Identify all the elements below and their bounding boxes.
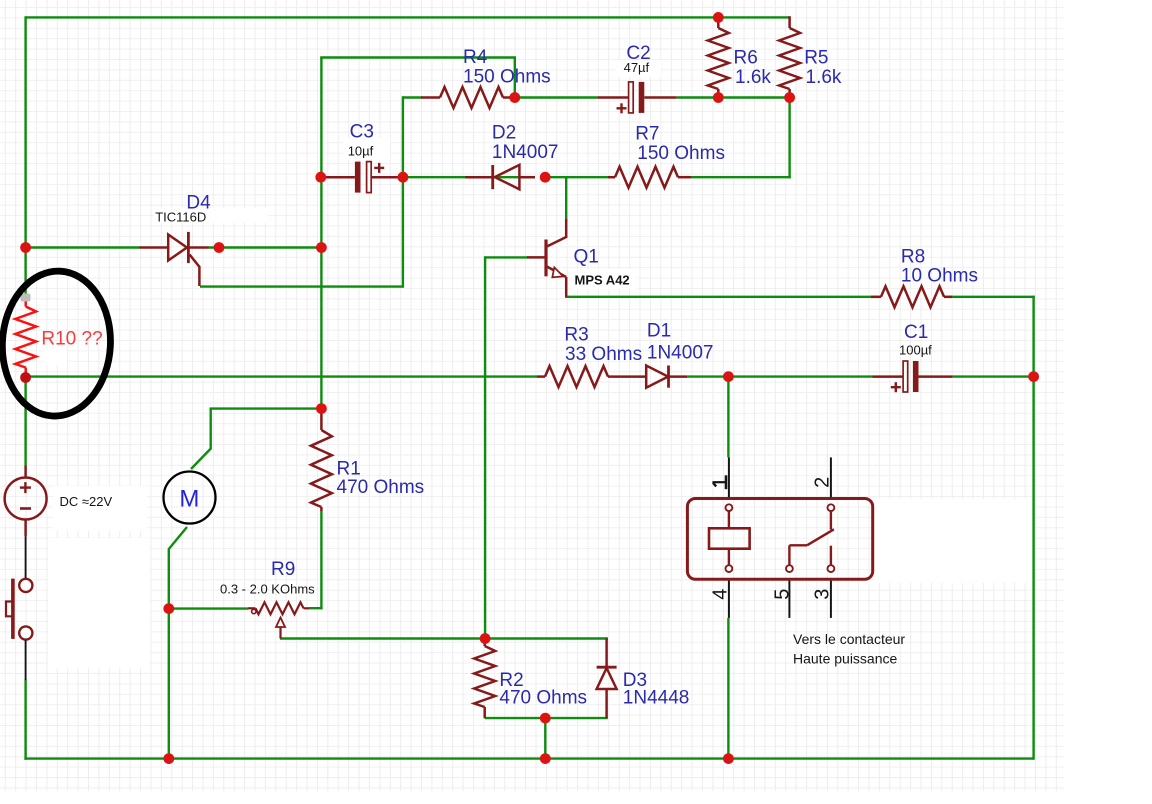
node D4 out bbox=[214, 242, 225, 253]
relay pin 3 lead bbox=[830, 581, 832, 618]
svg-text:2: 2 bbox=[811, 477, 833, 488]
wire R8 to right rail bbox=[952, 296, 1035, 298]
wire R2/D3 bottom bbox=[485, 717, 608, 719]
wire D3 corner bbox=[605, 637, 607, 640]
relay K1 bbox=[687, 457, 872, 618]
resistor R5 bbox=[779, 16, 800, 97]
wire R4 to node bbox=[509, 96, 515, 98]
wire motor bottom bbox=[169, 527, 187, 609]
wire vertical x403 bbox=[402, 96, 404, 287]
wire R10 to R3 bbox=[26, 375, 537, 377]
node R10 bottom bbox=[20, 372, 31, 383]
svg-text:100µf: 100µf bbox=[899, 343, 932, 358]
svg-text:10 Ohms: 10 Ohms bbox=[901, 265, 978, 286]
svg-text:C1: C1 bbox=[904, 322, 928, 343]
svg-text:1.6k: 1.6k bbox=[735, 67, 771, 88]
background white patches (no grid zones) bbox=[44, 60, 1033, 668]
wire Q1 emitter to R8 bbox=[565, 296, 871, 298]
svg-text:R3: R3 bbox=[564, 325, 588, 346]
wire node to C1 bbox=[728, 375, 872, 377]
node top R6 bbox=[713, 12, 724, 23]
node C3 right bbox=[398, 172, 409, 183]
node bottom 3 bbox=[723, 753, 734, 764]
node bottom 1 bbox=[163, 753, 174, 764]
node R2/D3 bottom bbox=[540, 713, 551, 724]
wire vertical x485 bbox=[484, 256, 486, 639]
wire motor rail lower bbox=[168, 607, 170, 759]
wire to R9 right bbox=[309, 607, 323, 609]
wire left rail to source bbox=[24, 378, 26, 466]
wire node to relay pin 1 bbox=[727, 377, 729, 458]
source plus bbox=[20, 482, 31, 493]
resistor R6 bbox=[708, 16, 729, 97]
R9 wiper stem bbox=[279, 627, 281, 639]
wire top rail bbox=[26, 16, 790, 18]
svg-text:MPS A42: MPS A42 bbox=[575, 272, 630, 287]
node R9 left bbox=[163, 603, 174, 614]
diode D3 1N4448 bbox=[597, 639, 617, 719]
resistor R10 (red) bbox=[15, 300, 36, 378]
node R4 right bbox=[509, 92, 520, 103]
capacitor C3 10uF bbox=[322, 162, 402, 193]
Q1 collector lead bbox=[565, 219, 568, 238]
node wiper bbox=[480, 633, 491, 644]
transistor Q1 MPS A42 bbox=[527, 219, 566, 297]
wire node to D3 top bbox=[485, 637, 608, 639]
pushbutton switch S1 bbox=[6, 536, 32, 680]
svg-text:150 Ohms: 150 Ohms bbox=[463, 67, 551, 88]
wire R4 node to C2 bbox=[515, 96, 598, 98]
wire left rail bottom bbox=[24, 680, 26, 760]
svg-text:4: 4 bbox=[710, 589, 732, 600]
svg-text:3: 3 bbox=[811, 589, 833, 600]
relay pin 5 lead bbox=[788, 581, 790, 618]
wire right rail bbox=[1032, 296, 1034, 760]
relay pin 1 lead bbox=[728, 457, 730, 497]
wire to R7 bbox=[691, 176, 791, 178]
svg-text:R9: R9 bbox=[271, 559, 295, 580]
resistor R7 bbox=[608, 167, 691, 188]
wire D4 to vertical bbox=[208, 246, 321, 248]
resistor R8 bbox=[871, 286, 952, 307]
switch actuator bar bbox=[11, 579, 15, 639]
svg-text:DC ≈22V: DC ≈22V bbox=[60, 494, 113, 509]
svg-text:1N4007: 1N4007 bbox=[492, 142, 559, 163]
svg-text:R10 ??: R10 ?? bbox=[41, 328, 102, 349]
Q1 emitter diag bbox=[547, 267, 566, 278]
relay contact arm bbox=[807, 529, 834, 545]
wire top feedback bbox=[320, 56, 516, 58]
capacitor C2 47uF bbox=[597, 82, 676, 113]
plus mark bbox=[374, 163, 384, 173]
switch bottom lead (black) bbox=[25, 640, 27, 680]
svg-text:R5: R5 bbox=[804, 47, 828, 68]
wire R7 to D2 node bbox=[545, 176, 609, 178]
diode D2 1N4007 bbox=[465, 165, 535, 189]
C2 plates bbox=[629, 82, 645, 113]
wire vertical x321 lower bbox=[320, 511, 322, 609]
plus mark bbox=[891, 382, 901, 392]
source minus bbox=[20, 507, 31, 510]
svg-text:0.3 - 2.0 KOhms: 0.3 - 2.0 KOhms bbox=[220, 581, 315, 596]
wire D2 to C3 node bbox=[403, 176, 535, 178]
relay pin 4 lead bbox=[728, 581, 730, 618]
svg-text:R6: R6 bbox=[734, 47, 758, 68]
svg-text:Haute puissance: Haute puissance bbox=[793, 650, 898, 666]
Q1 emitter lead bbox=[565, 277, 568, 297]
plus mark bbox=[617, 103, 627, 113]
resistor R3 bbox=[537, 366, 613, 387]
svg-text:D2: D2 bbox=[492, 123, 516, 144]
svg-text:33 Ohms: 33 Ohms bbox=[565, 344, 642, 365]
wire D4 gate run bbox=[200, 285, 403, 287]
hand-drawn black ellipse around R10 bbox=[0, 268, 114, 418]
svg-text:1N4448: 1N4448 bbox=[623, 687, 690, 708]
svg-text:Vers le contacteur: Vers le contacteur bbox=[793, 631, 905, 647]
relay pin label 1 bbox=[712, 475, 726, 489]
gray handle above R10 bbox=[21, 294, 31, 302]
C1 plates bbox=[903, 361, 918, 392]
relay contact bbox=[828, 504, 835, 511]
DC voltage source V1 bbox=[5, 466, 47, 537]
wire to R4 bbox=[403, 96, 422, 98]
wire R2 bottom corner bbox=[484, 717, 486, 718]
node R1 top bbox=[316, 403, 327, 414]
node C3 left bbox=[315, 172, 326, 183]
wire to R9 left bbox=[169, 607, 248, 609]
wire D3 bottom corner bbox=[605, 717, 607, 718]
svg-text:D1: D1 bbox=[647, 321, 671, 342]
Q1 base lead bbox=[527, 256, 545, 259]
svg-text:TIC116D: TIC116D bbox=[155, 209, 206, 224]
wire left rail upper bbox=[24, 16, 26, 299]
resistor R2 bbox=[474, 640, 495, 719]
Q1 base bar bbox=[544, 240, 547, 277]
potentiometer R9 bbox=[248, 602, 309, 638]
capacitor C1 100uF bbox=[873, 361, 953, 392]
node C1 right bbox=[1028, 371, 1039, 382]
svg-text:M: M bbox=[179, 486, 199, 513]
node D2 anode bbox=[540, 172, 551, 183]
motor M bbox=[164, 472, 216, 524]
relay coil bbox=[726, 504, 733, 511]
SCR D4 TIC116D bbox=[139, 232, 209, 286]
wire bottom rail bbox=[24, 757, 1033, 759]
wire D1 to node bbox=[687, 375, 728, 377]
svg-text:5: 5 bbox=[771, 589, 793, 600]
wire R5 node down bbox=[788, 98, 790, 179]
node R6 bottom bbox=[713, 92, 724, 103]
wire R4 node up bbox=[514, 58, 516, 99]
svg-text:1N4007: 1N4007 bbox=[647, 343, 714, 364]
svg-text:Q1: Q1 bbox=[574, 247, 599, 268]
resistor R1 bbox=[311, 410, 332, 511]
node D1 out bbox=[723, 371, 734, 382]
diode D1 1N4007 bbox=[613, 366, 687, 388]
wire relay pin 4 to bottom rail bbox=[727, 618, 729, 759]
Q1 collector diag bbox=[547, 237, 566, 247]
C3 plates bbox=[355, 162, 371, 193]
node D4 wire end bbox=[316, 242, 327, 253]
svg-text:10µf: 10µf bbox=[348, 143, 374, 158]
svg-text:150 Ohms: 150 Ohms bbox=[637, 143, 725, 164]
svg-text:47µf: 47µf bbox=[624, 60, 650, 75]
svg-text:470 Ohms: 470 Ohms bbox=[337, 477, 425, 498]
wire to Q1 base bbox=[485, 256, 527, 258]
wire vertical x321 upper bbox=[320, 58, 322, 410]
node R5 bottom bbox=[784, 92, 795, 103]
relay pin 2 lead bbox=[830, 457, 832, 497]
wire C1 to right rail bbox=[952, 375, 1033, 377]
wire left rail to D4 bbox=[26, 246, 139, 248]
node bottom 2 bbox=[540, 753, 551, 764]
wire Q1 collector up bbox=[565, 176, 567, 219]
svg-text:C3: C3 bbox=[350, 121, 374, 142]
node left rail D4 bbox=[20, 242, 31, 253]
svg-text:R7: R7 bbox=[635, 124, 659, 145]
svg-text:470 Ohms: 470 Ohms bbox=[499, 687, 587, 708]
svg-text:R8: R8 bbox=[901, 246, 925, 267]
wire motor top bbox=[191, 409, 321, 469]
switch top lead (black) bbox=[25, 536, 27, 578]
wire to bottom rail bbox=[544, 718, 546, 760]
resistor R4 bbox=[421, 87, 515, 108]
wire C2 to R5/R6 bbox=[677, 96, 791, 98]
svg-text:1.6k: 1.6k bbox=[806, 67, 842, 88]
wire R9 wiper run bbox=[280, 637, 485, 639]
svg-text:R4: R4 bbox=[463, 47, 488, 68]
